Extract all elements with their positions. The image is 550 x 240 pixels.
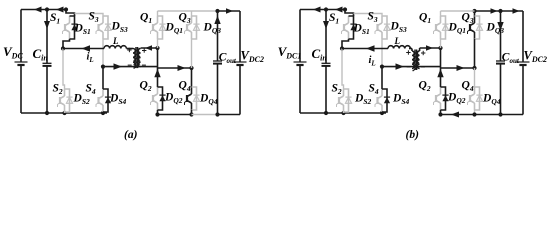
svg-text:(b): (b)	[406, 129, 420, 141]
svg-text:(a): (a)	[124, 129, 138, 141]
svg-text:L: L	[394, 36, 401, 46]
svg-text:L: L	[112, 36, 119, 46]
